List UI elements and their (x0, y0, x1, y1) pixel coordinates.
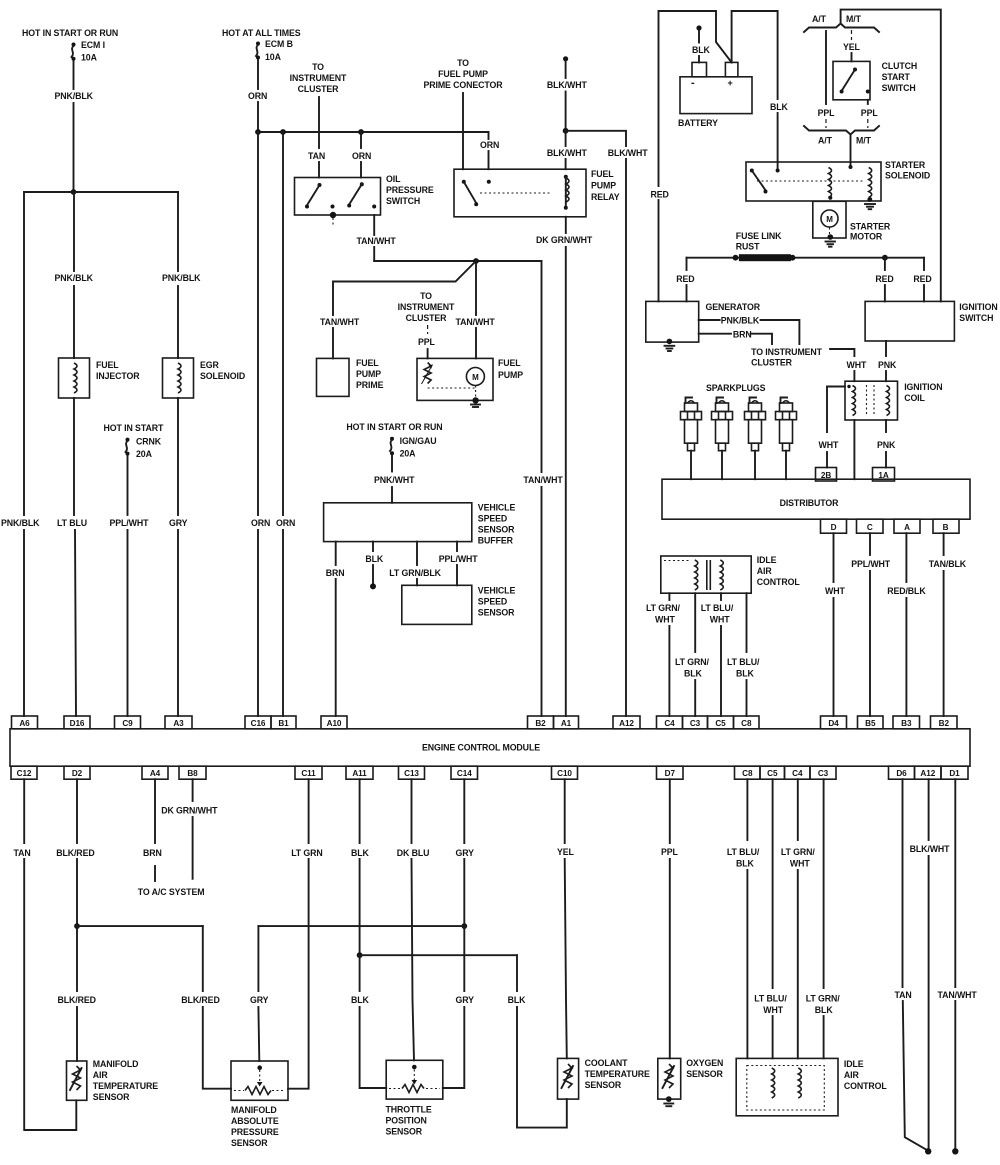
svg-text:SWITCH: SWITCH (882, 83, 916, 93)
svg-text:PPL: PPL (661, 847, 679, 857)
ignition switch (865, 301, 997, 341)
svg-text:BLK/RED: BLK/RED (181, 995, 219, 1005)
svg-text:YEL: YEL (843, 42, 861, 52)
svg-text:BLK: BLK (508, 995, 527, 1005)
svg-text:B3: B3 (901, 719, 912, 728)
svg-text:HOT IN START OR RUN: HOT IN START OR RUN (346, 422, 442, 432)
wire GRY EGR to ECM A3 (169, 398, 188, 716)
node RED junction on fuse link line (882, 255, 888, 261)
svg-text:FUEL: FUEL (498, 358, 521, 368)
svg-text:IDLE: IDLE (757, 555, 777, 565)
fuse CRNK 20A (126, 437, 162, 460)
svg-text:A6: A6 (19, 719, 30, 728)
wire RED fuse link to generator (676, 258, 694, 302)
pin B (933, 519, 959, 533)
wire GRY to MAP sensor top (250, 926, 269, 1061)
wire PNK coil to distributor 1A (877, 420, 896, 468)
pin A12 (613, 716, 640, 729)
wire DK GRN/WHT ECM B8 to A/C system (161, 779, 218, 879)
starter motor (813, 201, 891, 241)
svg-text:LT GRN/: LT GRN/ (781, 847, 815, 857)
svg-text:TAN/BLK: TAN/BLK (929, 559, 967, 569)
engine control module U2 (10, 729, 970, 766)
pin D6 (889, 766, 915, 779)
node TAN/WHT junction (473, 258, 479, 264)
svg-text:CLUSTER: CLUSTER (751, 358, 793, 368)
fuse IGN/GAU 20A (390, 436, 437, 459)
wire PPL instrument cluster to fuel pump (418, 325, 436, 358)
svg-text:20A: 20A (400, 449, 417, 459)
svg-text:C4: C4 (664, 719, 675, 728)
svg-text:C3: C3 (690, 719, 701, 728)
node ORN junction 1 (255, 129, 261, 135)
wire PPL ECM D7 to oxygen sensor (661, 779, 679, 1058)
svg-text:D1: D1 (949, 769, 960, 778)
svg-text:DISTRIBUTOR: DISTRIBUTOR (780, 498, 840, 508)
svg-text:AIR: AIR (844, 1070, 860, 1080)
pin C14 (451, 766, 478, 779)
idle air control upper (661, 555, 801, 593)
wire PNK/BLK from fuse to junction (55, 61, 94, 192)
ground starter solenoid (865, 204, 875, 209)
distributor (662, 479, 970, 519)
wire BLK/RED junction to MAP branch (77, 925, 203, 927)
sparkplug 4 (776, 398, 797, 480)
pin C10 (552, 766, 578, 779)
svg-text:PUMP: PUMP (356, 369, 381, 379)
svg-text:PNK: PNK (878, 360, 897, 370)
svg-text:SENSOR: SENSOR (386, 1127, 423, 1137)
wire TAN ECM C12 to MAT sensor return (14, 779, 77, 1130)
ground generator (665, 346, 675, 351)
svg-text:WHT: WHT (655, 615, 675, 625)
svg-text:BRN: BRN (733, 330, 752, 340)
wire BRN generator to instrument cluster (699, 330, 772, 345)
starter solenoid (746, 160, 930, 202)
svg-text:GRY: GRY (456, 995, 475, 1005)
wire LT GRN ECM C11 to MAP sensor (288, 779, 323, 1088)
wire LT BLU/BLK ECM C8 to idle air control (727, 779, 760, 1058)
svg-text:COOLANT: COOLANT (585, 1058, 629, 1068)
svg-text:A10: A10 (327, 719, 342, 728)
wire TAN ECM D6 (895, 779, 928, 1150)
node ORN junction 3 (358, 129, 364, 135)
svg-text:BLK: BLK (770, 102, 789, 112)
svg-text:TO: TO (312, 62, 324, 72)
wire BLK/WHT into relay (547, 131, 588, 169)
wire TAN instrument cluster to oil pressure switch (308, 97, 325, 178)
svg-text:B: B (943, 523, 949, 532)
wire to starter solenoid S terminal (850, 135, 852, 168)
wire BLK to coolant temperature sensor return (508, 955, 567, 1127)
node TO INSTRUMENT CLUSTER 3 (751, 347, 823, 368)
wire LT GRN/BLK IAC to ECM C3 (675, 593, 709, 716)
pin C16 (245, 716, 271, 729)
svg-text:RED: RED (651, 190, 669, 200)
svg-text:D4: D4 (828, 719, 839, 728)
svg-text:MANIFOLD: MANIFOLD (231, 1105, 277, 1115)
svg-text:A12: A12 (920, 769, 935, 778)
svg-text:WHT: WHT (819, 440, 839, 450)
pin D (821, 519, 847, 533)
wire PNK/BLK generator to instrument cluster (699, 316, 800, 345)
wire BLK to TPS (351, 955, 386, 1088)
svg-text:FUEL PUMP: FUEL PUMP (438, 69, 488, 79)
svg-text:-: - (691, 77, 695, 89)
sparkplug 1 (681, 398, 702, 480)
wire ORN bus (258, 131, 489, 133)
svg-text:DK BLU: DK BLU (397, 848, 430, 858)
svg-text:A: A (904, 523, 910, 532)
svg-text:YEL: YEL (557, 847, 575, 857)
wire WHT distributor D to ECM D4 (825, 533, 845, 716)
wire BLK/WHT terminal and drop (547, 56, 588, 131)
svg-text:COIL: COIL (904, 393, 925, 403)
svg-text:SWITCH: SWITCH (386, 196, 420, 206)
pin C5 (708, 716, 734, 729)
wire BLK battery to starter solenoid (732, 11, 789, 171)
svg-text:DK GRN/WHT: DK GRN/WHT (161, 806, 218, 816)
svg-text:ABSOLUTE: ABSOLUTE (231, 1116, 279, 1126)
svg-text:C8: C8 (742, 769, 753, 778)
svg-text:D2: D2 (72, 769, 83, 778)
pin A10 (321, 716, 347, 729)
svg-text:C4: C4 (792, 769, 803, 778)
svg-text:TAN/WHT: TAN/WHT (357, 236, 397, 246)
manifold absolute pressure sensor (231, 1061, 288, 1148)
svg-text:WHT: WHT (763, 1005, 783, 1015)
svg-text:CLUSTER: CLUSTER (298, 84, 340, 94)
svg-text:ORN: ORN (248, 91, 267, 101)
svg-text:IDLE: IDLE (844, 1059, 864, 1069)
wire BLK ECM A11 down (351, 779, 370, 955)
svg-text:BUFFER: BUFFER (478, 536, 514, 546)
svg-text:10A: 10A (81, 53, 98, 63)
svg-text:WHT: WHT (825, 586, 845, 596)
svg-text:PNK/BLK: PNK/BLK (721, 316, 760, 326)
svg-text:IGNITION: IGNITION (959, 302, 997, 312)
pin D2 (64, 766, 90, 779)
svg-text:A/T: A/T (818, 136, 833, 146)
wire TAN/WHT oil pressure switch down (357, 215, 397, 261)
pin D16 (64, 716, 90, 729)
svg-text:PNK: PNK (877, 440, 896, 450)
generator (646, 301, 761, 344)
svg-text:PPL/WHT: PPL/WHT (439, 554, 479, 564)
pin 2B (816, 468, 837, 482)
svg-text:LT BLU/: LT BLU/ (754, 994, 787, 1004)
svg-text:TEMPERATURE: TEMPERATURE (93, 1081, 158, 1091)
svg-text:PPL: PPL (418, 337, 436, 347)
wire TAN/WHT horizontal (374, 260, 541, 262)
fuse ECM B 10A (256, 39, 293, 62)
svg-text:+: + (728, 78, 733, 88)
wire RED generator to battery (651, 11, 732, 301)
pin C8 (734, 716, 760, 729)
fuel pump prime connector (317, 358, 384, 396)
pin C3b (810, 766, 836, 779)
node A/T M/T upper bracket (804, 14, 879, 32)
pin A12b (915, 766, 942, 779)
svg-text:ECM I: ECM I (81, 40, 105, 50)
svg-text:A11: A11 (352, 769, 367, 778)
wire PNK/WHT fuse to buffer (374, 455, 415, 503)
wire WHT coil to distributor 2B (819, 387, 846, 468)
svg-text:BLK/WHT: BLK/WHT (910, 844, 951, 854)
coolant temperature sensor (558, 1058, 651, 1099)
svg-text:BLK: BLK (815, 1005, 834, 1015)
svg-text:LT GRN/: LT GRN/ (675, 657, 709, 667)
svg-text:CLUTCH: CLUTCH (882, 61, 918, 71)
svg-text:C16: C16 (251, 719, 266, 728)
svg-text:RED: RED (676, 274, 694, 284)
svg-text:WHT: WHT (710, 615, 730, 625)
svg-text:HOT IN START OR RUN: HOT IN START OR RUN (22, 28, 118, 38)
node BLK/RED junction (74, 923, 80, 929)
svg-text:B5: B5 (865, 719, 876, 728)
node BLK/WHT junction (563, 128, 569, 134)
svg-text:HOT AT ALL TIMES: HOT AT ALL TIMES (222, 28, 301, 38)
svg-text:WHT: WHT (790, 859, 810, 869)
svg-text:PPL: PPL (861, 108, 879, 118)
svg-text:SENSOR: SENSOR (93, 1092, 130, 1102)
pin B8 (179, 766, 206, 779)
pin C8b (735, 766, 761, 779)
svg-text:LT GRN: LT GRN (291, 848, 323, 858)
wire PPL/WHT distributor C to ECM B5 (851, 533, 891, 716)
svg-text:GENERATOR: GENERATOR (706, 302, 761, 312)
pin B2 (528, 716, 554, 729)
wire ORN to ECM B1 (276, 132, 295, 716)
wire LT GRN/WHT IAC to ECM C4 (646, 593, 680, 716)
svg-text:LT BLU/: LT BLU/ (701, 603, 734, 613)
svg-text:TAN/WHT: TAN/WHT (523, 475, 563, 485)
svg-text:HOT IN START: HOT IN START (104, 423, 164, 433)
svg-text:BLK/RED: BLK/RED (56, 848, 94, 858)
wire PNK/BLK bus (24, 191, 178, 193)
svg-text:CONTROL: CONTROL (844, 1081, 888, 1091)
svg-text:PNK/WHT: PNK/WHT (374, 475, 415, 485)
svg-text:BLK: BLK (736, 859, 755, 869)
svg-text:LT GRN/: LT GRN/ (806, 994, 840, 1004)
wire GRY ECM C14 down (456, 779, 475, 926)
svg-text:THROTTLE: THROTTLE (386, 1105, 432, 1115)
svg-text:LT GRN/BLK: LT GRN/BLK (389, 568, 441, 578)
svg-text:M/T: M/T (846, 14, 862, 24)
svg-text:OXYGEN: OXYGEN (686, 1058, 723, 1068)
node BLK junction (357, 952, 363, 958)
svg-text:PNK/BLK: PNK/BLK (1, 518, 40, 528)
svg-text:SENSOR: SENSOR (478, 608, 515, 618)
wire frame to ignition switch (841, 10, 941, 302)
svg-text:LT GRN/: LT GRN/ (646, 603, 680, 613)
svg-text:INJECTOR: INJECTOR (96, 371, 140, 381)
svg-text:PNK/BLK: PNK/BLK (55, 273, 94, 283)
wire BLK/WHT ECM A12 (910, 779, 951, 1149)
svg-text:C5: C5 (715, 719, 726, 728)
pin B3 (893, 716, 920, 729)
svg-text:SENSOR: SENSOR (231, 1138, 268, 1148)
svg-text:TO INSTRUMENT: TO INSTRUMENT (751, 347, 823, 357)
svg-text:SENSOR: SENSOR (686, 1069, 723, 1079)
svg-text:BLK/WHT: BLK/WHT (608, 148, 649, 158)
wire RED to ignition switch 1 (875, 258, 893, 302)
fuel pump relay (454, 169, 620, 217)
pin C3 (683, 716, 708, 729)
svg-text:TO A/C SYSTEM: TO A/C SYSTEM (138, 887, 205, 897)
wire BRN ECM A4 to A/C system (143, 779, 162, 881)
pin A11 (346, 766, 373, 779)
svg-text:D7: D7 (665, 769, 676, 778)
node TO INSTRUMENT CLUSTER (290, 62, 347, 94)
svg-text:TAN: TAN (14, 848, 31, 858)
wire RED to ignition switch 2 (913, 258, 931, 302)
wire BLK/RED to MAP sensor (181, 926, 231, 1089)
svg-text:BLK: BLK (692, 45, 711, 55)
svg-text:EGR: EGR (200, 360, 220, 370)
svg-text:INSTRUMENT: INSTRUMENT (398, 302, 455, 312)
svg-text:M: M (826, 215, 833, 224)
svg-text:C5: C5 (767, 769, 778, 778)
pin C4 (657, 716, 683, 729)
wire LT GRN/WHT ECM C4 to idle air control (781, 779, 815, 1058)
svg-text:ORN: ORN (251, 518, 270, 528)
wire RED/BLK distributor A to ECM B3 (887, 533, 926, 716)
ground starter motor (826, 242, 836, 247)
battery (678, 62, 752, 128)
throttle position sensor (386, 1060, 443, 1136)
svg-text:TO: TO (420, 291, 432, 301)
svg-text:ORN: ORN (352, 151, 371, 161)
wire PNK/BLK to EGR solenoid (162, 192, 201, 358)
svg-text:RED: RED (913, 274, 931, 284)
svg-text:VEHICLE: VEHICLE (478, 586, 516, 596)
pin B2b (931, 716, 958, 729)
svg-text:PRIME CONECTOR: PRIME CONECTOR (423, 80, 503, 90)
svg-text:PRIME: PRIME (356, 380, 384, 390)
svg-text:PUMP: PUMP (591, 181, 616, 191)
pin B5 (858, 716, 884, 729)
svg-text:INSTRUMENT: INSTRUMENT (290, 73, 347, 83)
svg-text:START: START (882, 72, 911, 82)
svg-text:CONTROL: CONTROL (757, 577, 801, 587)
wire LT BLU/BLK IAC to ECM C8 (727, 593, 760, 716)
wire BLK battery negative terminal (692, 25, 711, 62)
node terminal TAN/WHT (952, 1148, 958, 1154)
pin 1A (873, 468, 895, 482)
svg-text:BRN: BRN (326, 568, 345, 578)
svg-text:M: M (472, 373, 479, 382)
svg-text:A12: A12 (619, 719, 634, 728)
svg-text:WHT: WHT (847, 360, 867, 370)
node A/T M/T lower bracket (804, 126, 879, 146)
svg-text:B2: B2 (939, 719, 950, 728)
wire PNK/BLK to ECM A6 (1, 192, 40, 716)
pin C11 (295, 766, 322, 779)
pin A1 (554, 716, 579, 729)
svg-text:BRN: BRN (143, 848, 162, 858)
wire LT BLU/WHT IAC to ECM C5 (701, 593, 734, 716)
svg-text:D: D (831, 523, 837, 532)
svg-text:M/T: M/T (856, 136, 872, 146)
svg-text:SOLENOID: SOLENOID (200, 371, 245, 381)
wire BLK/RED to MAT sensor (58, 926, 96, 1061)
pin C4b (785, 766, 811, 779)
svg-text:SWITCH: SWITCH (959, 313, 993, 323)
svg-text:FUEL: FUEL (96, 360, 119, 370)
svg-text:BLK: BLK (684, 669, 703, 679)
svg-text:C3: C3 (818, 769, 829, 778)
svg-text:MOTOR: MOTOR (850, 232, 883, 242)
wire YEL ECM C10 to coolant sensor (557, 779, 575, 1058)
svg-text:BLK: BLK (365, 554, 384, 564)
svg-text:C: C (867, 523, 873, 532)
svg-text:RED: RED (875, 274, 893, 284)
svg-text:TAN/WHT: TAN/WHT (320, 317, 360, 327)
manifold air temperature sensor (67, 1059, 159, 1102)
svg-text:C11: C11 (301, 769, 316, 778)
svg-text:PNK/BLK: PNK/BLK (162, 273, 201, 283)
wire PPL/WHT buffer to speed sensor (439, 542, 479, 586)
svg-text:C9: C9 (122, 719, 133, 728)
wire fuel pump prime conector to relay (462, 93, 464, 169)
pin D1 (941, 766, 968, 779)
svg-text:TAN: TAN (895, 990, 912, 1000)
node TO INSTRUMENT CLUSTER 2 (398, 291, 455, 323)
fuel pump (417, 358, 523, 407)
wire DK GRN/WHT relay to ECM A1 (536, 217, 593, 716)
wire LT BLU/WHT ECM C5 to idle air control (754, 779, 787, 1058)
wire BRN buffer to ECM A10 (326, 542, 345, 716)
svg-text:PPL/WHT: PPL/WHT (851, 559, 891, 569)
wire YEL to clutch start switch (843, 30, 861, 61)
svg-text:OIL: OIL (386, 174, 401, 184)
svg-text:A/T: A/T (812, 14, 827, 24)
svg-text:BLK: BLK (351, 848, 370, 858)
wire TAN/WHT to instrument cluster branch (320, 261, 476, 358)
svg-text:GRY: GRY (456, 848, 475, 858)
svg-text:STARTER: STARTER (850, 222, 891, 232)
svg-text:D16: D16 (70, 719, 85, 728)
svg-text:FUSE LINK: FUSE LINK (736, 231, 782, 241)
wire PPL M/T branch (861, 100, 879, 128)
pin B1 (271, 716, 296, 729)
svg-text:SPARKPLUGS: SPARKPLUGS (706, 383, 766, 393)
svg-text:STARTER: STARTER (885, 160, 926, 170)
wire DK BLU ECM C13 to TPS (397, 779, 430, 1060)
svg-text:TEMPERATURE: TEMPERATURE (585, 1069, 650, 1079)
svg-text:BATTERY: BATTERY (678, 118, 718, 128)
svg-text:SPEED: SPEED (478, 514, 507, 524)
pin D7 (657, 766, 684, 779)
pin A4 (142, 766, 168, 779)
svg-text:RELAY: RELAY (591, 192, 620, 202)
wire BLK/WHT branch to ECM A12 (566, 131, 649, 716)
svg-text:BLK/RED: BLK/RED (58, 995, 96, 1005)
vehicle speed sensor buffer U1 (324, 503, 516, 546)
wire TAN/WHT junction to fuel pump (456, 261, 496, 358)
svg-text:CRNK: CRNK (136, 437, 162, 447)
wire PNK/BLK to fuel injector (55, 192, 94, 358)
node PNK/BLK junction (71, 189, 77, 195)
svg-text:FUEL: FUEL (591, 169, 614, 179)
node ORN junction 2 (280, 129, 286, 135)
svg-text:MANIFOLD: MANIFOLD (93, 1059, 139, 1069)
pin A3 (165, 716, 192, 729)
svg-text:A4: A4 (150, 769, 161, 778)
EGR solenoid (163, 358, 246, 398)
wire PNK ignition switch to coil (878, 341, 897, 381)
